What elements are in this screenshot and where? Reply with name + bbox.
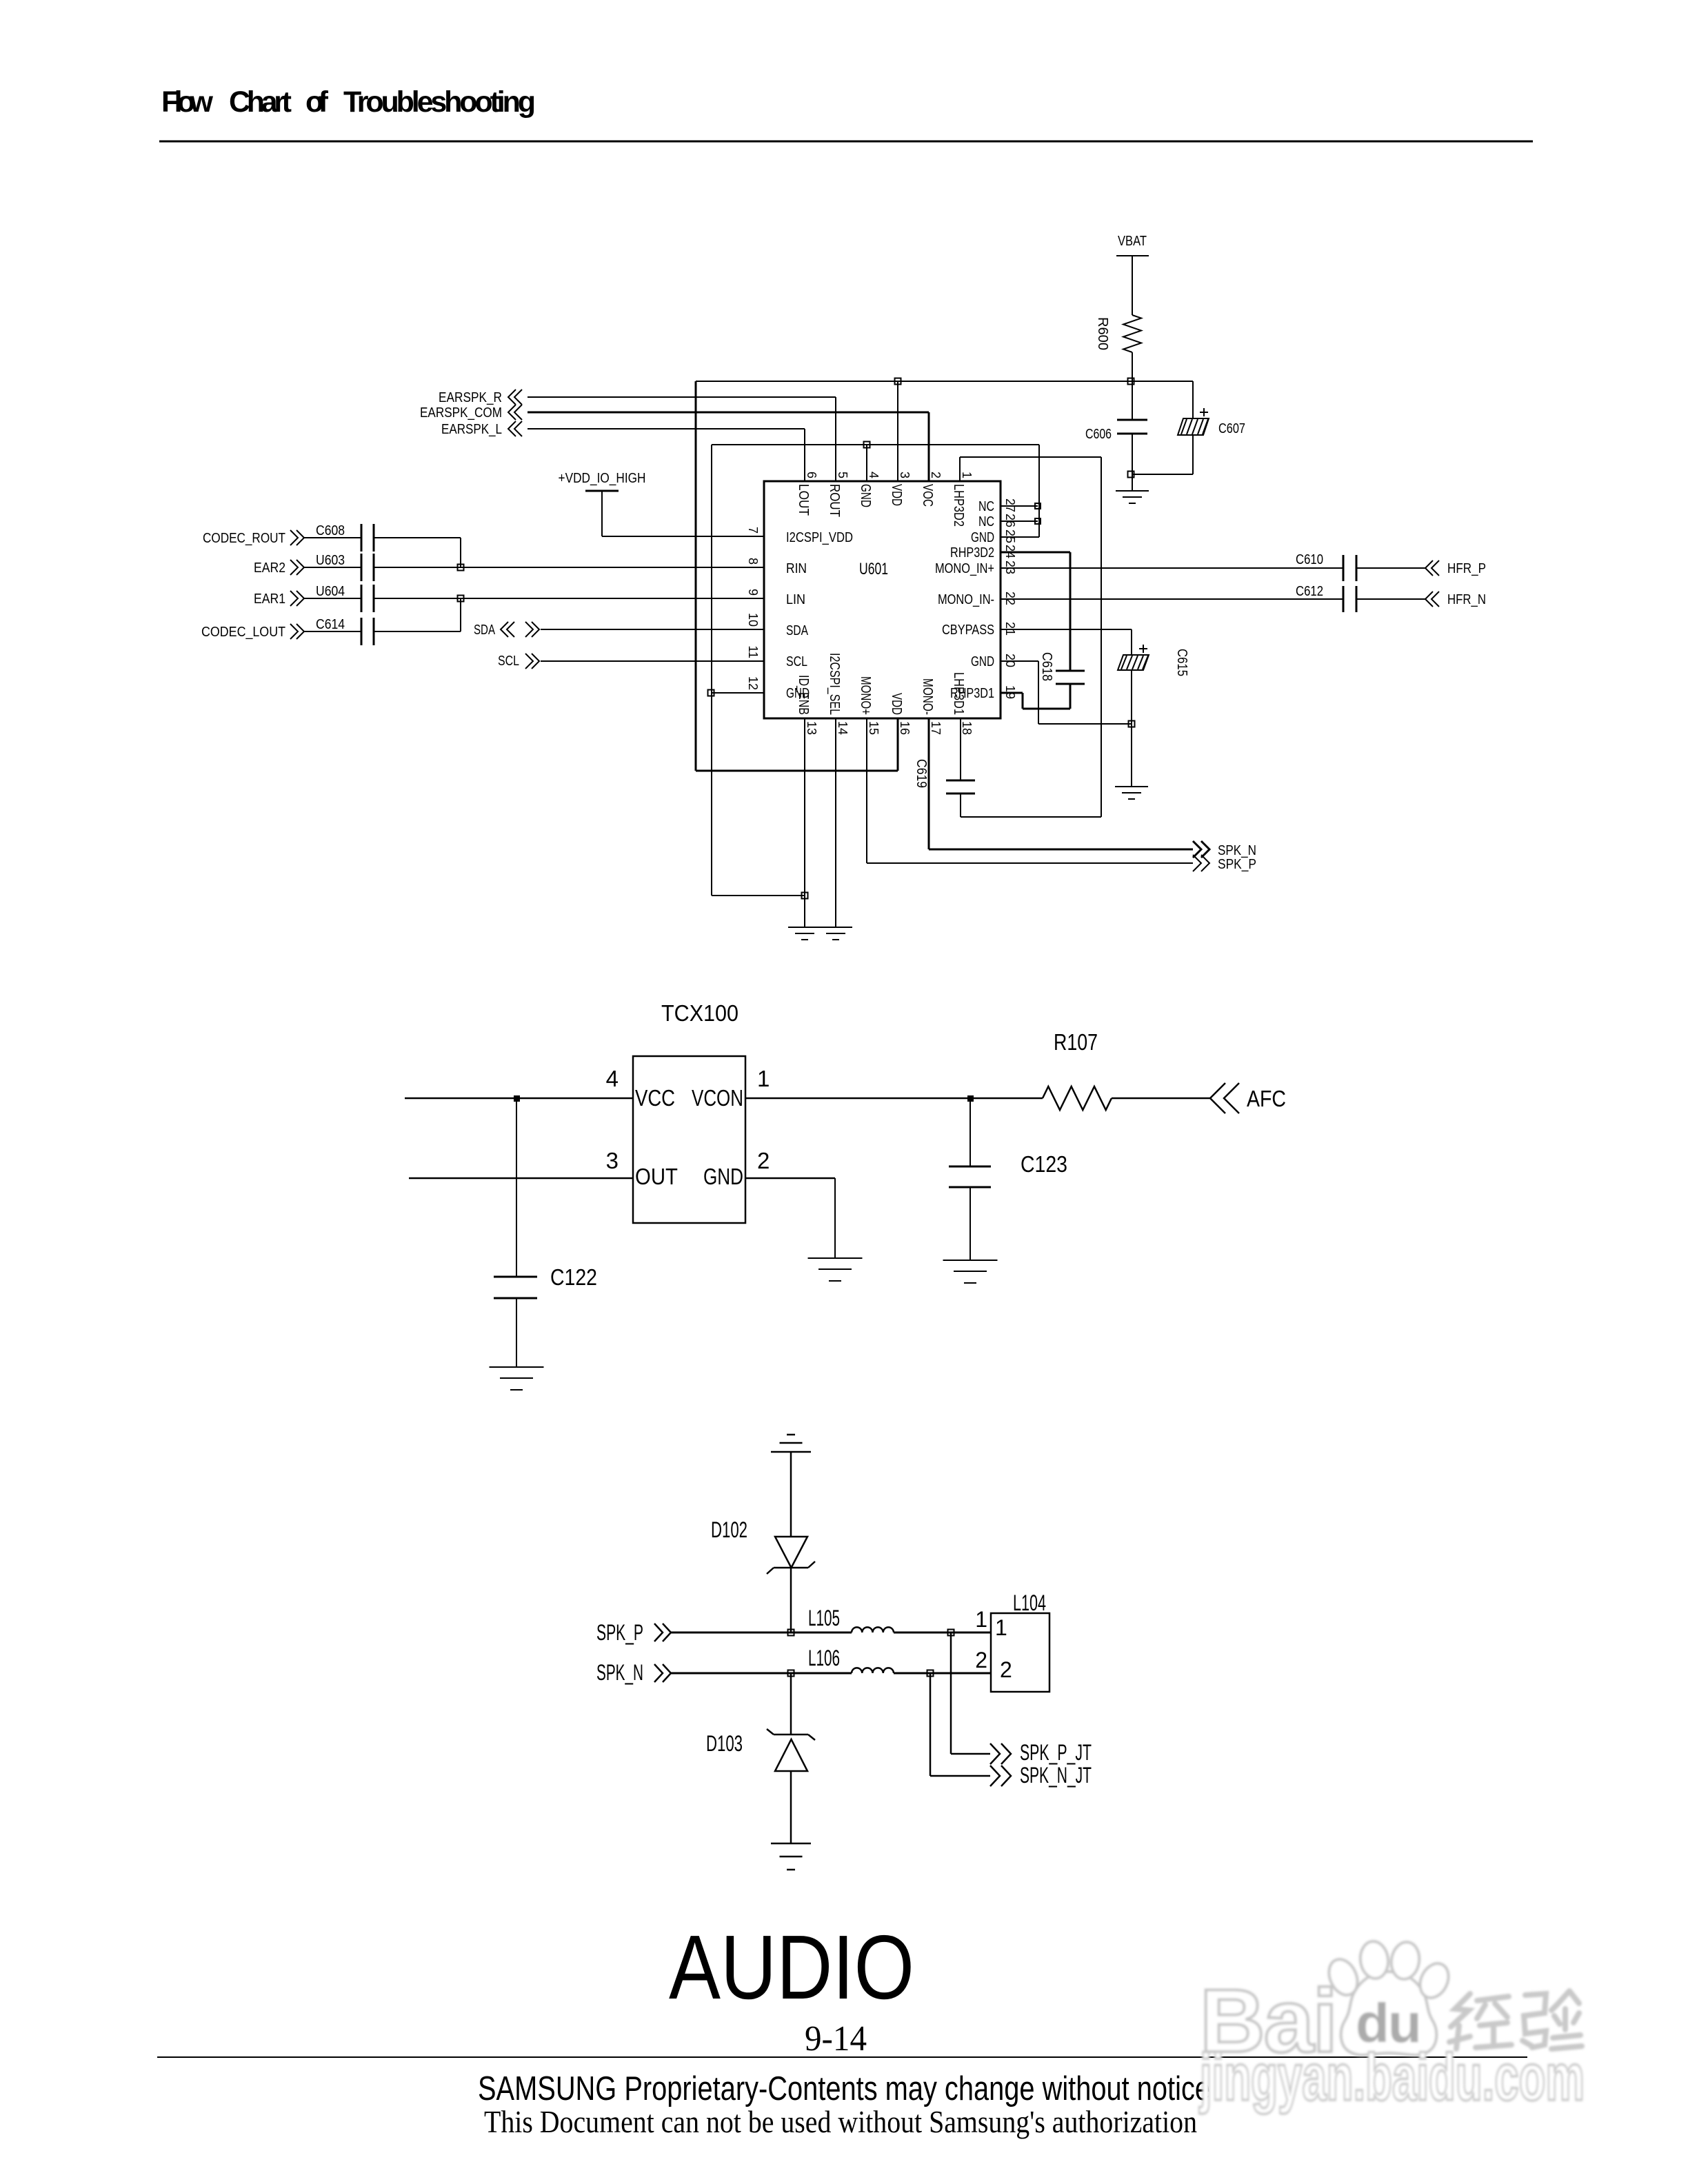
svg-text:VBAT: VBAT [1118,234,1147,249]
svg-text:C608: C608 [316,523,345,538]
svg-text:LIN: LIN [786,592,805,607]
svg-text:EARSPK_R: EARSPK_R [439,390,502,405]
svg-text:U604: U604 [316,584,345,599]
svg-text:of: of [305,85,329,119]
svg-text:1: 1 [975,1607,987,1632]
svg-text:2: 2 [929,472,943,478]
svg-text:11: 11 [746,645,760,658]
svg-text:EAR2: EAR2 [254,560,285,576]
svg-text:C606: C606 [1085,427,1112,442]
svg-text:LHP3D1: LHP3D1 [951,672,966,715]
svg-text:CODEC_ROUT: CODEC_ROUT [203,531,285,546]
svg-text:4: 4 [867,472,881,478]
svg-text:25: 25 [1003,529,1017,543]
svg-text:HFR_N: HFR_N [1447,592,1486,607]
svg-text:SCL: SCL [786,654,807,669]
svg-text:R107: R107 [1054,1029,1098,1055]
svg-text:MONO+: MONO+ [858,676,873,715]
svg-text:Flow: Flow [161,85,214,119]
svg-text:C612: C612 [1296,584,1323,599]
svg-text:MONO_IN-: MONO_IN- [938,592,994,607]
svg-text:9: 9 [746,589,760,596]
svg-text:16: 16 [898,721,912,735]
svg-text:SCL: SCL [498,654,519,669]
svg-text:L105: L105 [808,1606,840,1630]
svg-text:I2CSPI_VDD: I2CSPI_VDD [786,530,853,545]
svg-text:U603: U603 [316,553,345,568]
svg-text:12: 12 [746,676,760,690]
svg-text:GND: GND [703,1164,743,1189]
svg-text:C614: C614 [316,617,345,632]
svg-text:24: 24 [1003,545,1017,558]
svg-text:GND: GND [971,654,994,669]
svg-text:HFR_P: HFR_P [1447,561,1486,576]
svg-text:VCON: VCON [692,1085,743,1111]
svg-text:U601: U601 [859,560,888,578]
svg-text:1: 1 [995,1615,1007,1640]
svg-text:C615: C615 [1174,649,1189,676]
svg-text:SPK_N: SPK_N [1218,843,1256,858]
svg-text:8: 8 [746,558,760,565]
svg-text:LHP3D2: LHP3D2 [951,484,966,527]
svg-text:+VDD_IO_HIGH: +VDD_IO_HIGH [559,471,646,486]
svg-text:3: 3 [898,472,912,478]
svg-text:AUDIO: AUDIO [669,1917,914,2018]
svg-text:ROUT: ROUT [827,484,842,517]
svg-text:MONO-: MONO- [920,678,935,715]
svg-text:C619: C619 [914,759,929,788]
svg-text:VDD: VDD [889,693,904,715]
svg-text:5: 5 [836,472,850,478]
svg-text:SPK_N_JT: SPK_N_JT [1020,1763,1092,1788]
svg-text:NC: NC [978,514,994,529]
svg-text:Troubleshooting: Troubleshooting [343,85,536,119]
svg-text:D102: D102 [711,1517,747,1542]
svg-text:21: 21 [1003,622,1017,636]
svg-text:L106: L106 [808,1646,840,1670]
svg-text:15: 15 [867,721,881,735]
svg-text:CODEC_LOUT: CODEC_LOUT [201,625,285,640]
svg-text:SPK_P: SPK_P [1218,857,1256,872]
svg-text:9-14: 9-14 [805,2019,867,2059]
svg-text:LOUT: LOUT [796,484,811,516]
svg-text:6: 6 [805,472,818,478]
svg-text:4: 4 [606,1066,619,1091]
svg-text:EAR1: EAR1 [254,591,285,607]
svg-text:23: 23 [1003,560,1017,574]
svg-text:20: 20 [1003,654,1017,667]
svg-text:SPK_N: SPK_N [596,1660,643,1685]
svg-text:C607: C607 [1218,421,1245,436]
svg-text:10: 10 [746,613,760,627]
svg-text:This Document can not be used: This Document can not be used without Sa… [484,2105,1197,2139]
svg-text:RIN: RIN [786,561,807,576]
svg-text:VDD: VDD [889,484,904,506]
svg-text:17: 17 [929,721,943,735]
svg-text:SDA: SDA [786,623,809,638]
svg-text:26: 26 [1003,514,1017,527]
svg-text:GND: GND [971,530,994,545]
svg-text:GND: GND [858,484,873,507]
svg-text:R600: R600 [1095,317,1110,350]
svg-text:1: 1 [960,472,974,478]
svg-text:C123: C123 [1021,1151,1067,1177]
svg-text:7: 7 [746,527,760,534]
svg-text:jingyan.baidu.com: jingyan.baidu.com [1199,2041,1585,2114]
svg-text:2: 2 [757,1148,770,1173]
svg-text:TCX100: TCX100 [661,1000,738,1026]
svg-text:27: 27 [1003,498,1017,512]
svg-text:19: 19 [1003,685,1017,699]
svg-text:D103: D103 [706,1731,743,1756]
svg-text:C122: C122 [550,1264,597,1290]
svg-text:1: 1 [757,1066,770,1091]
svg-text:AFC: AFC [1247,1086,1286,1111]
svg-text:SDA: SDA [474,623,495,638]
svg-text:2: 2 [975,1648,987,1672]
svg-text:VOC: VOC [920,484,935,507]
svg-text:NC: NC [978,499,994,514]
svg-text:Chart: Chart [229,85,292,119]
svg-text:14: 14 [836,721,850,735]
svg-text:SPK_P_JT: SPK_P_JT [1020,1740,1092,1765]
svg-text:13: 13 [805,721,818,735]
svg-text:SPK_P: SPK_P [596,1620,643,1645]
svg-text:MONO_IN+: MONO_IN+ [935,561,994,576]
svg-text:2: 2 [1000,1657,1012,1682]
svg-text:18: 18 [960,721,974,735]
svg-text:L104: L104 [1013,1590,1046,1615]
svg-text:22: 22 [1003,591,1017,605]
svg-text:C618: C618 [1039,652,1054,681]
svg-text:CBYPASS: CBYPASS [942,623,994,638]
svg-text:3: 3 [606,1148,619,1173]
svg-text:SAMSUNG Proprietary-Contents m: SAMSUNG Proprietary-Contents may change … [478,2070,1210,2107]
svg-text:EARSPK_COM: EARSPK_COM [420,405,502,421]
svg-text:ID_ENB: ID_ENB [796,675,811,715]
svg-text:EARSPK_L: EARSPK_L [441,422,502,437]
svg-text:I2CSPI_SEL: I2CSPI_SEL [827,653,842,715]
svg-text:OUT: OUT [635,1164,678,1189]
svg-text:RHP3D2: RHP3D2 [950,545,994,560]
svg-text:C610: C610 [1296,552,1323,567]
svg-text:VCC: VCC [635,1085,675,1111]
